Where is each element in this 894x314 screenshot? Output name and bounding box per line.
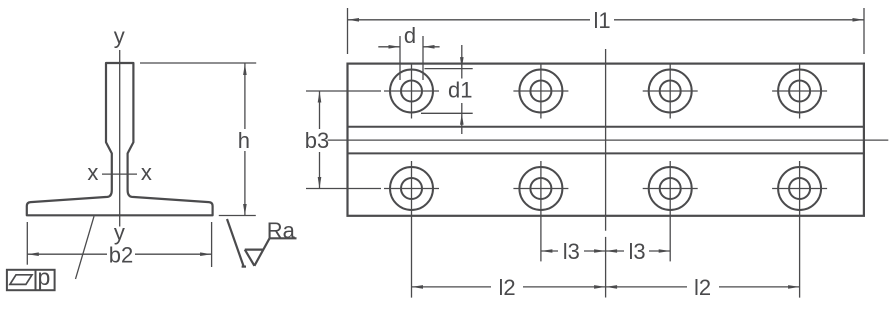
dimension l3 left line and arrows: [541, 249, 606, 253]
dimension l2 right line and arrows: [606, 285, 800, 289]
label l2 right: [694, 275, 711, 300]
svg-text:d: d: [404, 23, 416, 48]
svg-text:Ra: Ra: [267, 218, 296, 243]
svg-text:p: p: [38, 264, 51, 290]
dimension l1 extension lines: [348, 8, 865, 54]
svg-text:b3: b3: [305, 128, 329, 153]
row 1 centerline left: [306, 90, 381, 92]
hole H7: [643, 161, 698, 261]
row 2 centerline left: [306, 188, 381, 190]
label Ra: [267, 218, 296, 243]
dimension d extension lines: [400, 36, 423, 80]
hole H5: [384, 161, 439, 298]
svg-text:l2: l2: [694, 275, 711, 300]
dimension l2 left line and arrows: [412, 285, 606, 289]
svg-text:l2: l2: [498, 275, 515, 300]
rail horizontal centerline: [328, 139, 889, 141]
label h: [238, 128, 250, 153]
hole H6: [513, 161, 568, 261]
label d: [404, 23, 416, 48]
label b3: [305, 128, 329, 153]
leader line to flatness frame: [76, 216, 95, 279]
svg-text:b2: b2: [109, 242, 133, 267]
svg-text:x: x: [141, 160, 152, 185]
svg-text:d1: d1: [448, 78, 472, 103]
svg-text:l3: l3: [563, 239, 580, 264]
dimension h extension lines: [140, 63, 256, 216]
label p: [38, 264, 51, 290]
hole H2: [513, 64, 568, 119]
flatness symbol parallelogram: [10, 275, 32, 285]
label b2: [109, 242, 133, 267]
label y bottom: [114, 220, 125, 245]
label l3 left: [563, 239, 580, 264]
svg-text:y: y: [114, 220, 125, 245]
label x right: [141, 160, 152, 185]
svg-text:l1: l1: [593, 8, 610, 33]
rail vertical mid centerline: [605, 49, 607, 298]
dimension l1 line and arrows: [348, 18, 865, 22]
hole H8: [772, 161, 827, 298]
dimension h line and arrows: [243, 64, 247, 216]
hole H3: [643, 64, 698, 119]
svg-text:x: x: [87, 160, 98, 185]
hole H4: [772, 64, 827, 119]
dimension b2 line and arrows: [27, 252, 211, 256]
hole H1: [384, 64, 439, 119]
profile outline T-section: [27, 63, 213, 215]
label y top: [114, 24, 125, 49]
svg-text:l3: l3: [628, 239, 645, 264]
feature control frame: [7, 270, 55, 290]
rail groove edge upper: [348, 126, 864, 128]
centerline y-y: [119, 50, 121, 227]
label x left: [87, 160, 98, 185]
label l3 right: [628, 239, 645, 264]
dimension b3 line and arrows: [318, 91, 322, 189]
dimension l3 right line and arrows: [606, 249, 671, 253]
dimension d line and arrows: [378, 45, 439, 49]
rail plan rectangle: [348, 64, 864, 216]
dimension d1 line and arrows: [460, 45, 464, 134]
svg-text:y: y: [114, 24, 125, 49]
label d1: [448, 78, 472, 103]
surface finish symbol: [227, 219, 297, 267]
dimension b2 extension lines: [27, 222, 211, 267]
svg-text:h: h: [238, 128, 250, 153]
rail groove edge lower: [348, 152, 864, 154]
label l2 left: [498, 275, 515, 300]
dimension d1 extension lines: [421, 69, 473, 114]
label l1: [593, 8, 610, 33]
section line x-x: [102, 173, 137, 175]
